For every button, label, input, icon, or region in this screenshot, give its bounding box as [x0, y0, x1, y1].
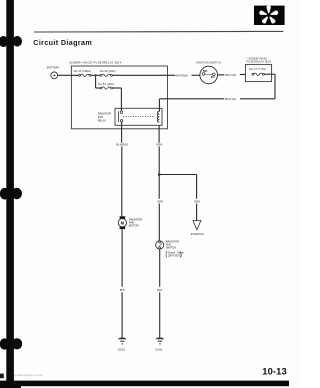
svg-text:Circuit Diagram: Circuit Diagram [33, 38, 92, 47]
svg-text:No.41 (100A): No.41 (100A) [74, 69, 91, 73]
svg-text:BLK: BLK [157, 288, 162, 292]
radiator fan motor [118, 216, 126, 229]
svg-text:No.51 (20A): No.51 (20A) [98, 82, 114, 86]
ignition switch [200, 66, 218, 84]
chapter icon (cooling fan) [254, 5, 285, 25]
node junction to fuse51 [95, 75, 97, 88]
svg-text:IGNITION SWITCH: IGNITION SWITCH [196, 61, 221, 65]
wire ignition to under-dash box (BLK/YEL) [218, 74, 225, 76]
fuse No.41 (100A) [79, 74, 91, 76]
wire fuse17 out, down and back (BLK/YEL) [264, 73, 275, 75]
svg-text:BLK: BLK [120, 288, 125, 292]
spiral binding bar [6, 0, 14, 381]
relay box [115, 108, 162, 125]
svg-text:GRN: GRN [194, 199, 200, 203]
junction dot B [158, 173, 161, 176]
wire battery to fuse41 [57, 74, 78, 76]
svg-text:ECM/PCM: ECM/PCM [191, 232, 204, 236]
svg-text:GRN: GRN [157, 199, 163, 203]
ground G201 [118, 338, 127, 344]
spiral ring top [0, 36, 22, 47]
under-dash fuse/relay box [245, 64, 271, 81]
svg-text:10-13: 10-13 [262, 365, 286, 376]
ground G101 [156, 338, 165, 344]
fuse No.51 (20A) [100, 87, 112, 89]
svg-text:IG2: IG2 [211, 76, 216, 79]
svg-text:BLK/YEL: BLK/YEL [225, 97, 237, 101]
svg-text:BLK/YEL: BLK/YEL [225, 73, 237, 77]
fuse No.17 (7.5A) [252, 73, 264, 75]
svg-text:FUSE/RELAY BOX: FUSE/RELAY BOX [247, 59, 272, 63]
spiral ring bottom [0, 338, 22, 349]
svg-text:RELAY: RELAY [98, 118, 107, 122]
svg-text:BATTERY: BATTERY [47, 66, 60, 70]
svg-text:MOTOR: MOTOR [129, 224, 139, 228]
svg-text:SWITCH: SWITCH [166, 246, 176, 250]
wire relay to motor (BLK/RED) [121, 122, 123, 143]
fuse No.42 (40A) [100, 74, 112, 76]
bottom strip [0, 381, 289, 387]
svg-text:No.42 (40A): No.42 (40A) [100, 69, 116, 73]
value label closed above 199F 93C [165, 251, 168, 258]
svg-text:BAT: BAT [203, 70, 208, 73]
wire branch to ECM/PCM (GRN) [159, 174, 196, 176]
wire motor to ground (BLK) [121, 229, 123, 287]
wire fan switch to ground (BLK) [159, 249, 161, 287]
under-hood fuse/relay box [71, 66, 167, 129]
radiator fan switch [156, 241, 164, 249]
svg-text:BLK/RED: BLK/RED [116, 143, 128, 147]
svg-text:199°F (93°C): 199°F (93°C) [168, 255, 182, 258]
relay internals [118, 111, 159, 122]
wire fuse42 to ignition (WHT/BLK) [112, 74, 175, 76]
junction dot A [95, 74, 97, 76]
svg-text:WHT/BLK: WHT/BLK [176, 73, 188, 77]
svg-text:G201: G201 [118, 347, 126, 351]
svg-text:UNDER–HOOD FUSE/RELAY BOX: UNDER–HOOD FUSE/RELAY BOX [69, 60, 122, 64]
svg-text:G101: G101 [155, 347, 163, 351]
top rule [34, 30, 283, 33]
svg-text:M: M [121, 220, 125, 225]
wire fuse41 to fuse42 [91, 74, 100, 76]
connector arrow to ECM/PCM [193, 221, 201, 230]
battery [51, 72, 58, 79]
wire fuse51 to relay [112, 87, 121, 89]
svg-text:GRN: GRN [156, 143, 162, 147]
svg-text:No.17 (7.5A): No.17 (7.5A) [249, 67, 266, 71]
spiral ring middle [0, 188, 22, 200]
wire relay to fan switch (GRN) [158, 125, 160, 143]
svg-text:emanualpro.com: emanualpro.com [14, 373, 43, 377]
